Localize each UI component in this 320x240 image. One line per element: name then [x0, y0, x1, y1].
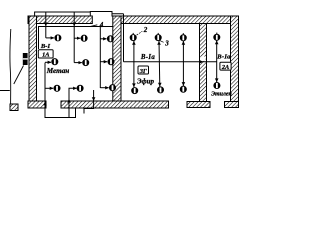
label B-I zone class [40, 43, 51, 50]
wire arrow to lamp L6 [100, 61, 107, 63]
wall bottom-left corner [28, 101, 46, 108]
wire c3 drop below bottom wall [84, 90, 95, 114]
lamp L5 [83, 60, 89, 66]
label 2 [137, 26, 148, 35]
svg-text:2: 2 [143, 26, 148, 34]
wall partition 2 (Efir/Ethylene) [200, 24, 207, 102]
lamp L6 [108, 59, 114, 65]
wire riser to row3 lamp2 [67, 88, 76, 117]
wire column c1 lower segment and under-door loop [43, 63, 75, 118]
svg-text:4: 4 [99, 21, 104, 29]
panel 1 on left wall [23, 53, 28, 65]
svg-text:Метан: Метан [46, 67, 70, 75]
wall top-right section [121, 16, 239, 24]
wire stem m3 [182, 41, 186, 86]
wire column c3 [99, 27, 101, 89]
svg-text:В-Iа: В-Iа [216, 53, 231, 60]
lamp L1 [55, 35, 61, 41]
label B-Ia ethylene zone [216, 53, 231, 60]
wire arrow to lamp L2 [74, 37, 80, 39]
wire arrow to lamp L7 [45, 87, 53, 89]
lamp E1 [130, 33, 136, 41]
wire inner run along left and top walls [39, 27, 113, 50]
svg-text:2А: 2А [221, 64, 229, 71]
label Metan room [46, 67, 70, 75]
wall left outer [29, 16, 37, 108]
lamp L9 [109, 85, 115, 91]
wire drop into ether room [123, 14, 125, 62]
wall top-left section [28, 16, 92, 24]
label 3 [159, 40, 169, 48]
wire trunk above top wall [35, 12, 91, 17]
wall right outer footing [225, 102, 239, 108]
label B-Ia ether zone [140, 54, 155, 61]
wire arrow to lamp L3 [100, 38, 106, 40]
wall right outer [231, 16, 239, 108]
box group 1A [38, 50, 53, 59]
lamp E4 [132, 88, 138, 94]
wire arrow to lamp L1 [46, 37, 54, 39]
label Efir room [137, 78, 154, 86]
box group 2A [220, 62, 231, 71]
lamp L3 [107, 36, 113, 42]
lamp E3 [180, 33, 186, 41]
svg-text:Этилен: Этилен [211, 92, 232, 98]
wire column c1 upper segment [44, 12, 48, 38]
hatch gap where bus crosses partition 2 [200, 57, 205, 61]
wire service entry [0, 90, 10, 92]
svg-text:В-I: В-I [40, 43, 51, 50]
lamp E5 [157, 87, 163, 93]
wire column c2 [72, 12, 76, 63]
wall partition 2 footing [187, 102, 210, 108]
leader to panel 1 [14, 66, 24, 85]
svg-text:3: 3 [164, 40, 169, 48]
sealed wall passage box [90, 12, 123, 17]
lamp L7 [54, 85, 60, 91]
wall partition 1 (Metan/Efir) [113, 16, 121, 102]
box group 3G [138, 66, 149, 75]
lamp T2 [214, 82, 220, 88]
wire stem m2 [157, 41, 161, 87]
wall bottom middle section [61, 101, 169, 108]
svg-text:ЗГ: ЗГ [139, 68, 147, 75]
wire arrow to lamp L4 [45, 61, 51, 63]
label 4 [90, 21, 104, 29]
svg-text:Эфир: Эфир [137, 78, 154, 86]
break line left [9, 29, 12, 104]
wire arrow to lamp L5 [74, 62, 82, 64]
lamp T1 [214, 33, 220, 41]
lamp L8 [77, 85, 83, 91]
wire arrow to lamp L9 [100, 87, 108, 89]
wire bus ether room [124, 60, 217, 63]
lamp E6 [180, 86, 186, 92]
label Ethylene room [211, 92, 232, 98]
lamp L4 [52, 59, 58, 65]
wall break pier bottom-left [10, 104, 18, 111]
svg-text:1А: 1А [42, 52, 49, 59]
svg-text:В-Iа: В-Iа [140, 54, 155, 61]
lamp E2 [155, 33, 161, 41]
wire stem ethylene room [215, 41, 219, 83]
wire stem m1 [132, 41, 136, 87]
lamp L2 [81, 35, 87, 41]
